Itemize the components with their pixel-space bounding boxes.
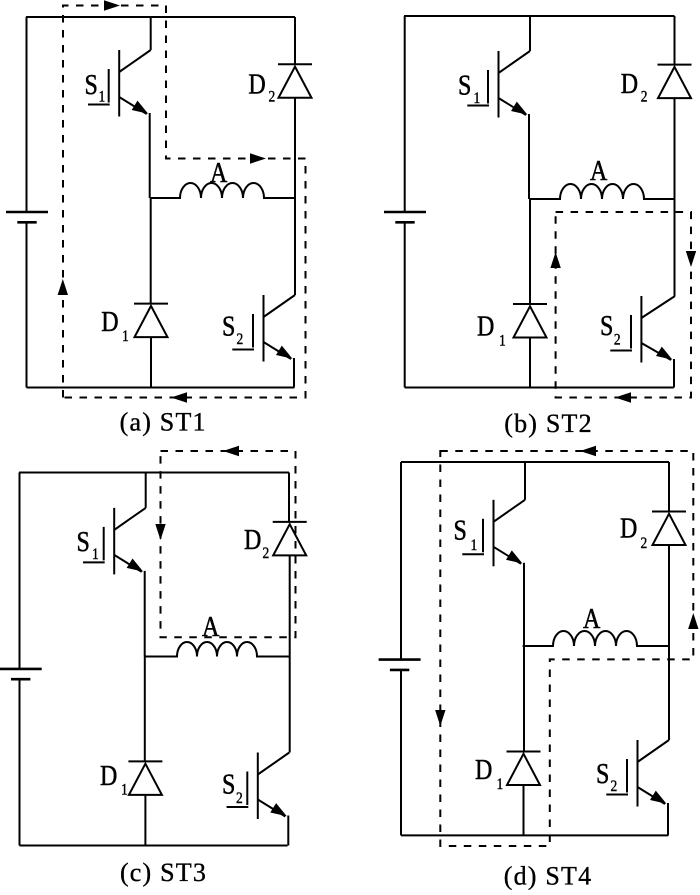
svg-text:S: S [454,513,467,546]
svg-text:D: D [620,511,637,544]
svg-text:2: 2 [614,331,621,348]
svg-text:2: 2 [263,545,270,562]
svg-text:1: 1 [474,90,481,107]
svg-text:D: D [475,753,492,786]
svg-text:1: 1 [99,88,106,105]
svg-text:2: 2 [269,88,276,105]
svg-text:A: A [583,602,600,635]
svg-text:A: A [202,610,219,643]
svg-text:D: D [621,67,638,100]
svg-text:1: 1 [499,332,506,349]
svg-text:2: 2 [641,88,648,105]
svg-text:D: D [248,68,265,101]
svg-text:2: 2 [236,790,243,807]
svg-text:S: S [600,309,613,342]
svg-text:2: 2 [237,331,244,348]
svg-text:S: S [596,757,609,790]
svg-text:S: S [85,68,98,101]
svg-text:S: S [222,767,235,800]
svg-text:D: D [101,305,118,338]
svg-text:1: 1 [121,781,128,798]
svg-text:(b) ST2: (b) ST2 [504,409,593,438]
svg-text:(c) ST3: (c) ST3 [120,858,207,887]
svg-text:1: 1 [471,537,478,554]
svg-text:(a) ST1: (a) ST1 [120,408,207,437]
svg-text:2: 2 [641,535,648,552]
svg-text:2: 2 [611,778,618,795]
svg-text:S: S [222,309,235,342]
svg-text:D: D [477,309,494,342]
svg-text:1: 1 [497,776,504,793]
svg-text:S: S [458,68,471,101]
svg-text:1: 1 [92,546,99,563]
svg-text:1: 1 [122,328,129,345]
svg-text:A: A [590,154,607,187]
svg-text:D: D [100,759,117,792]
svg-text:S: S [77,525,90,558]
svg-text:D: D [244,523,261,556]
svg-text:A: A [210,156,227,189]
svg-text:(d) ST4: (d) ST4 [504,862,593,891]
